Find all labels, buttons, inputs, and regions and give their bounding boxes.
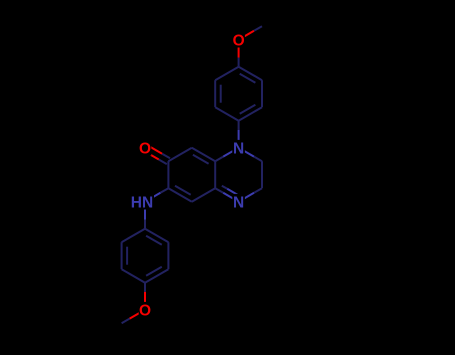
bond C5s-C4s: [122, 269, 145, 283]
bond O1-C4p: [238, 40, 240, 58]
svg-text:HN: HN: [131, 194, 153, 211]
bond C1s-C6s: [122, 229, 145, 243]
svg-text:N: N: [233, 140, 244, 157]
bond C5p-C6p: [214, 80, 216, 107]
double bond inner C6p=C5p: [220, 85, 222, 103]
atom label N4: [232, 194, 245, 210]
double bond inner N4=C4a: [227, 189, 237, 195]
bond C4a-C8a: [214, 161, 216, 188]
bond C2-C3: [261, 161, 263, 188]
atom label O1: [232, 32, 245, 48]
svg-text:O: O: [139, 140, 151, 157]
bond C3-N4: [254, 188, 262, 193]
bond C2s-C3s: [167, 242, 169, 269]
bond C3s-C4s: [145, 269, 168, 283]
bond N4-C4a: [223, 193, 238, 202]
double bond inner C4p=C3p: [240, 74, 256, 83]
double bond C7=O2 line: [143, 151, 158, 160]
bond N1-C2: [239, 148, 254, 157]
bond C5-C4a: [192, 188, 215, 202]
bond C4p-C5p: [215, 67, 238, 81]
bond C3p-C2p: [261, 80, 263, 107]
double bond inner C2p=C1p: [240, 105, 256, 114]
atom label O2: [139, 140, 152, 156]
atom label O3: [139, 302, 152, 318]
atom label N1: [232, 140, 245, 156]
double bond inner C6=C5: [175, 186, 191, 195]
bond O3-M2: [130, 310, 145, 319]
bond C2p-C1p: [239, 107, 262, 121]
double bond C7=O2 line: [147, 145, 163, 154]
svg-text:N: N: [233, 194, 244, 211]
double bond inner C3s=C4s: [146, 267, 162, 276]
bond N1-C8a: [223, 148, 238, 157]
bond C8a-C8: [192, 148, 215, 162]
bond C4s-O3: [144, 283, 146, 292]
svg-text:O: O: [139, 302, 151, 319]
double bond inner C8a=C8: [193, 155, 209, 164]
atom label N3 (HN): [126, 194, 154, 210]
bond C1p-N1: [238, 121, 240, 130]
bond C8-C7: [168, 148, 191, 162]
bond N3-C1s: [144, 202, 146, 220]
bond O1-M1: [239, 31, 254, 40]
svg-text:O: O: [233, 32, 245, 49]
bond C4p-C3p: [239, 67, 262, 81]
double bond inner C1s=C2s: [146, 236, 162, 245]
bond C6p-C1p: [215, 107, 238, 121]
bond C7-C6: [167, 161, 169, 188]
double bond inner C5s=C6s: [126, 247, 128, 265]
bond C6s-C5s: [121, 242, 123, 269]
bond C1s-C2s: [145, 229, 168, 243]
bond C6-C5: [168, 188, 191, 202]
bond C6-N3: [160, 188, 168, 193]
